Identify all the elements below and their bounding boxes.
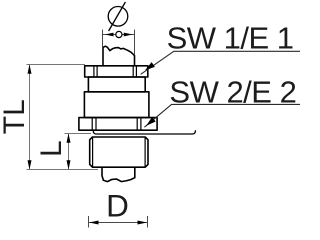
svg-text:L: L bbox=[35, 140, 68, 157]
bottom shared extension line bbox=[27, 169, 99, 171]
diameter symbol circle bbox=[108, 6, 128, 26]
top dim center circle bbox=[116, 31, 122, 37]
TL dimension line bbox=[29, 65, 31, 170]
sealing washer bbox=[93, 130, 195, 134]
L dimension line bbox=[68, 134, 70, 170]
leader arrow SW1 bbox=[145, 62, 155, 70]
L arrow down bbox=[67, 160, 71, 169]
TL top extension line bbox=[27, 64, 86, 66]
top dim extension line right bbox=[134, 30, 136, 55]
leader arrow SW2 bbox=[146, 117, 156, 126]
TL arrow down bbox=[28, 160, 32, 169]
leader line SW1 bbox=[141, 51, 300, 74]
hex SW2 facet lines bbox=[92, 118, 141, 131]
svg-text:SW 2/E 2: SW 2/E 2 bbox=[169, 74, 296, 109]
top dim extension line left bbox=[102, 30, 104, 48]
thread root line right bbox=[144, 137, 146, 167]
svg-text:TL: TL bbox=[0, 99, 31, 134]
L arrow up bbox=[67, 134, 71, 143]
top cable stub (broken cable end) bbox=[103, 46, 135, 66]
diameter symbol slash bbox=[109, 2, 126, 31]
top dimension line bbox=[103, 34, 135, 36]
L top extension line bbox=[65, 133, 92, 135]
D extension line left bbox=[88, 216, 90, 228]
top dim arrow right bbox=[124, 33, 133, 37]
threaded section outline bbox=[90, 137, 148, 167]
hex SW1 facet lines bbox=[94, 66, 136, 77]
hex nut SW1 body bbox=[85, 66, 148, 77]
D arrow right bbox=[138, 221, 147, 225]
svg-text:D: D bbox=[106, 188, 129, 224]
D dimension line bbox=[89, 222, 148, 224]
TL arrow up bbox=[28, 65, 32, 74]
svg-text:SW 1/E 1: SW 1/E 1 bbox=[167, 21, 294, 56]
bottom cable stub (broken cable end) bbox=[102, 167, 135, 181]
D extension line right bbox=[147, 216, 149, 228]
middle body bbox=[84, 92, 148, 118]
top dim arrow left bbox=[105, 33, 114, 37]
leader line SW2 bbox=[144, 104, 300, 127]
neck section bbox=[88, 77, 145, 92]
thread root line left bbox=[92, 137, 94, 167]
hex nut SW2 body bbox=[79, 118, 157, 131]
D arrow left bbox=[89, 221, 98, 225]
